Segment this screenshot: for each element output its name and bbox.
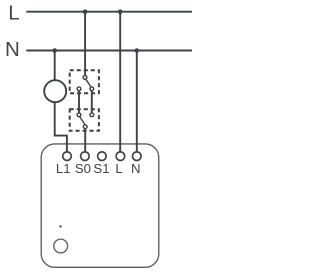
switch SW2 throw contact right xyxy=(90,113,94,117)
wire N junction down to terminal N xyxy=(136,51,138,153)
svg-text:S0: S0 xyxy=(75,161,91,176)
switch SW2 lever xyxy=(80,117,86,125)
terminal S1 xyxy=(98,152,107,161)
traveller wire left xyxy=(78,91,80,113)
wire lamp to terminal L1 xyxy=(55,102,67,152)
switch SW2 wall switch (dashed enclosure) xyxy=(70,109,99,131)
svg-text:S1: S1 xyxy=(93,161,109,176)
svg-text:L: L xyxy=(8,2,19,25)
terminal S0 xyxy=(81,152,90,161)
wire L junction down to switch SW1 common xyxy=(84,12,86,75)
switch SW1 wall switch (dashed enclosure) xyxy=(70,70,99,93)
wire L line xyxy=(26,11,192,13)
wire L junction down to terminal L xyxy=(119,12,121,153)
switch SW1 common contact xyxy=(83,76,87,80)
switch SW2 common contact xyxy=(83,125,87,129)
junction L to module terminal L xyxy=(118,9,123,14)
terminal L1 xyxy=(63,152,72,161)
terminal L xyxy=(116,152,125,161)
junction N to lamp xyxy=(52,48,57,53)
switch SW1 lever xyxy=(86,79,92,87)
switch SW1 throw contact left xyxy=(77,87,81,91)
traveller wire right xyxy=(91,91,93,113)
wire SW2 common down to terminal S0 xyxy=(84,129,86,152)
junction L to switch feed xyxy=(83,9,88,14)
LED indicator xyxy=(59,225,62,228)
switch SW2 throw contact left xyxy=(77,113,81,117)
button reset xyxy=(54,239,68,253)
terminal N xyxy=(133,152,142,161)
junction N to module terminal N xyxy=(135,48,140,53)
svg-text:N: N xyxy=(131,161,141,176)
wire N junction down to lamp xyxy=(54,51,56,80)
svg-text:L1: L1 xyxy=(56,161,71,176)
relay module U1 body xyxy=(41,144,159,267)
switch SW1 throw contact right xyxy=(90,87,94,91)
wire N line xyxy=(26,50,192,52)
lamp E1 xyxy=(44,80,66,102)
svg-text:L: L xyxy=(115,161,122,176)
svg-text:N: N xyxy=(5,38,20,61)
